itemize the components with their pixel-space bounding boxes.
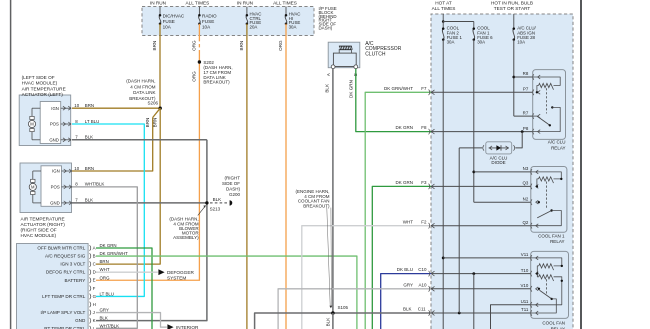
panel boundary connector C (F8)	[431, 129, 434, 134]
fuse DIC/HVAC FUSE 10A	[159, 15, 161, 23]
cool fan relay contact path to T11	[531, 299, 556, 313]
panel boundary connector C (C11)	[431, 311, 434, 316]
cool fan relay box	[531, 251, 569, 318]
svg-text:P7: P7	[523, 87, 529, 92]
wire: feed stub above fuse F2	[198, 7, 200, 16]
A/C compressor clutch box	[328, 42, 360, 67]
fuse COOL FAN 2 FUSE 1 30A	[442, 29, 444, 40]
wire diode left lead	[459, 147, 482, 149]
svg-text:C10: C10	[418, 267, 427, 272]
svg-text:BRN: BRN	[239, 41, 244, 51]
svg-text:WHT: WHT	[403, 219, 413, 224]
wire LT BLU actuator-left POS to pin G (LFT TEMP DR CTRL)	[72, 124, 144, 296]
wire: feed stub above fuse F3	[246, 7, 248, 16]
panel boundary connector C (C10)	[431, 271, 434, 276]
svg-text:S105: S105	[338, 305, 349, 310]
svg-text:S206: S206	[147, 101, 158, 106]
wire BRN S206 diagonal to second drop	[153, 108, 161, 117]
svg-text:(DASH HARN,: (DASH HARN,	[126, 79, 155, 84]
cool fan relay coil 1	[531, 258, 562, 266]
svg-text:10A: 10A	[517, 39, 525, 44]
wire BRN fuse1 down to S206	[159, 24, 161, 108]
air temperature actuator (left) outer box	[19, 95, 70, 146]
wire BLK C11 through S105 to panel	[255, 313, 431, 329]
wire V10 row (from A10)	[431, 288, 531, 290]
wire R7 feed	[514, 115, 533, 117]
svg-text:V10: V10	[520, 283, 528, 288]
svg-text:C: C	[93, 262, 96, 267]
cool fan relay dashed actuator link	[546, 279, 548, 293]
underhood fuse block panel (dashed, light blue)	[431, 14, 573, 329]
svg-text:GRY: GRY	[100, 308, 110, 313]
svg-text:DEFOGGER: DEFOGGER	[167, 270, 194, 275]
svg-text:T10: T10	[521, 268, 529, 273]
svg-text:ACTUATOR (RIGHT): ACTUATOR (RIGHT)	[21, 222, 66, 227]
svg-text:DEFOG RLY CTRL: DEFOG RLY CTRL	[46, 270, 86, 275]
wire GRY pin J to interior lamps	[96, 313, 167, 328]
svg-text:DK BLU: DK BLU	[397, 267, 413, 272]
wire WHT/BLK actuator-right POS to pin L (RT TEMP DR CTRL)	[72, 187, 137, 328]
leader lines to S105	[327, 208, 330, 307]
wire BLK clutch A down to S105	[332, 69, 334, 313]
svg-text:BRN: BRN	[85, 166, 94, 171]
splice S202	[198, 60, 201, 63]
svg-text:IN RUN: IN RUN	[237, 1, 253, 6]
svg-text:DK GRN: DK GRN	[100, 243, 117, 248]
svg-text:F2: F2	[421, 219, 427, 224]
wire R8 feed	[514, 76, 533, 78]
A/C CLU diode box	[486, 142, 512, 154]
wire: left page border line	[10, 0, 12, 329]
svg-text:HOT AT: HOT AT	[435, 0, 452, 5]
wire WHT F2 to panel	[302, 226, 431, 329]
svg-text:GND: GND	[50, 201, 60, 206]
svg-text:10: 10	[74, 103, 79, 108]
svg-text:BLK: BLK	[403, 307, 412, 312]
splice S213	[205, 201, 208, 204]
svg-text:IGN 3 VOLT: IGN 3 VOLT	[60, 262, 85, 267]
svg-text:A/C REQUEST SIG: A/C REQUEST SIG	[45, 254, 86, 259]
svg-text:DASH): DASH)	[319, 26, 333, 31]
svg-text:4 CM FROM: 4 CM FROM	[130, 84, 156, 89]
wire BLK actuator-right GND to S213	[72, 202, 207, 204]
svg-text:RELAY: RELAY	[550, 239, 564, 244]
svg-text:SIDE OF: SIDE OF	[222, 181, 240, 186]
air temperature actuator (right) motor M	[32, 171, 34, 203]
svg-text:M: M	[30, 122, 34, 127]
HVAC control module connector box	[17, 244, 89, 329]
svg-text:BLK: BLK	[213, 197, 222, 202]
svg-text:BATTERY: BATTERY	[65, 278, 86, 283]
svg-text:DK GRN: DK GRN	[348, 80, 353, 98]
wire BRN actuator-left IGN to S206	[72, 107, 160, 109]
svg-text:(RIGHT SIDE OF: (RIGHT SIDE OF	[21, 228, 57, 233]
svg-text:Q2: Q2	[522, 220, 528, 225]
ground G200 symbol	[230, 200, 233, 205]
svg-text:(LEFT SIDE OF: (LEFT SIDE OF	[22, 75, 55, 80]
svg-text:N2: N2	[523, 196, 529, 201]
wire fuse6 output down to N3 and N2	[473, 40, 475, 203]
wire DK GRN clutch B down then right to F8	[356, 69, 431, 132]
wire ORG S202 down to pin E corner	[198, 62, 200, 280]
svg-text:Q3: Q3	[522, 181, 528, 186]
wire T10 row (from C10)	[431, 273, 531, 275]
wire P8 row (from F8) with diode tap	[431, 131, 533, 133]
svg-text:ALL TIMES: ALL TIMES	[432, 6, 456, 11]
wire P7 row (from F7)	[431, 91, 533, 93]
svg-text:ORG: ORG	[100, 275, 111, 280]
svg-text:A: A	[93, 245, 96, 250]
panel boundary connector C (F2)	[431, 223, 434, 228]
svg-text:DK GRN/WHT: DK GRN/WHT	[100, 251, 129, 256]
cool fan relay coil 2	[539, 275, 554, 281]
svg-text:F8: F8	[421, 125, 427, 130]
svg-text:BRN: BRN	[85, 103, 94, 108]
svg-text:BLK: BLK	[85, 135, 93, 140]
svg-text:BRN: BRN	[145, 118, 150, 128]
svg-text:LFT TEMP DR CTRL: LFT TEMP DR CTRL	[42, 294, 86, 299]
svg-text:10A: 10A	[163, 24, 172, 29]
svg-text:10: 10	[74, 166, 79, 171]
wire DK GRN pin A (OFF BLWR MTR CTRL) down off page	[96, 248, 152, 329]
svg-text:F3: F3	[421, 180, 427, 185]
svg-text:IGN: IGN	[51, 106, 59, 111]
wire ORG fuse2 below fuse	[198, 24, 200, 38]
connector pin F	[90, 286, 91, 292]
svg-text:F7: F7	[421, 86, 427, 91]
wire ORG horizontal to pin E (BATTERY)	[96, 279, 200, 281]
svg-text:P8: P8	[523, 126, 529, 131]
leader line to S213	[198, 206, 206, 216]
svg-text:GND: GND	[75, 318, 86, 323]
clutch terminal A	[331, 65, 335, 69]
wire T11 row (from C11)	[431, 312, 531, 314]
svg-text:WHT: WHT	[100, 267, 110, 272]
cool fan 1 relay dashed actuator link	[546, 182, 548, 209]
wire: feed from panel top to fuse 1/fuse 6	[442, 14, 444, 22]
svg-text:ORG: ORG	[191, 40, 196, 51]
svg-text:D: D	[93, 270, 96, 275]
svg-text:A/C CLU: A/C CLU	[548, 140, 566, 145]
defogger system arrow	[158, 269, 164, 275]
cool fan 1 relay switch armature	[537, 211, 551, 218]
svg-text:TEST OR START: TEST OR START	[494, 6, 531, 11]
panel boundary connector C (F3)	[431, 184, 434, 189]
svg-text:S213: S213	[210, 206, 221, 211]
svg-text:I/P LAMP SPLY VOLT: I/P LAMP SPLY VOLT	[41, 310, 86, 315]
wire Q3 row (from F3)	[431, 185, 531, 187]
wire GRY A10 to panel	[278, 289, 431, 329]
svg-text:E: E	[93, 278, 96, 283]
svg-text:POS: POS	[51, 185, 60, 190]
svg-text:10A: 10A	[202, 24, 211, 29]
svg-text:J: J	[93, 310, 95, 315]
svg-text:BRN: BRN	[152, 41, 157, 51]
svg-text:COOL FAN: COOL FAN	[542, 321, 565, 326]
A/C CLU relay box	[533, 70, 566, 140]
svg-text:AIR TEMPERATURE: AIR TEMPERATURE	[21, 216, 65, 221]
wire: right page border line	[580, 0, 582, 329]
interior lamps arrow	[167, 324, 173, 329]
svg-text:CLUTCH: CLUTCH	[365, 51, 386, 57]
svg-text:BRN: BRN	[153, 118, 158, 128]
svg-text:DATA LINK: DATA LINK	[133, 90, 155, 95]
I/P fuse block box (dashed, light blue)	[142, 7, 314, 36]
A/C CLU relay switch armature	[533, 115, 537, 117]
wire BRN down to actuator-right IGN	[72, 118, 153, 172]
wire: feed stub above fuse F1	[159, 7, 161, 16]
svg-text:BRN: BRN	[100, 259, 109, 264]
svg-text:R7: R7	[523, 110, 529, 115]
svg-text:RELAY: RELAY	[551, 145, 565, 150]
svg-text:BLK: BLK	[325, 83, 330, 93]
svg-text:IGN: IGN	[52, 169, 60, 174]
svg-text:H: H	[93, 302, 96, 307]
svg-text:B: B	[93, 253, 96, 258]
svg-text:DK GRN/WHT: DK GRN/WHT	[384, 86, 413, 91]
svg-text:BREAKOUT): BREAKOUT)	[303, 203, 330, 208]
svg-text:N3: N3	[523, 166, 529, 171]
svg-text:K: K	[93, 318, 96, 323]
wire diode ground drop	[458, 148, 460, 313]
svg-text:DK GRN: DK GRN	[395, 125, 413, 130]
wire DK GRN/WHT pin B (A/C REQUEST SIG) down off page	[96, 256, 357, 329]
air temperature actuator (right) outer box	[20, 163, 72, 213]
svg-text:DIC/HVAC: DIC/HVAC	[163, 13, 185, 18]
svg-text:HVAC MODULE): HVAC MODULE)	[22, 81, 58, 86]
svg-text:20A: 20A	[250, 25, 258, 30]
svg-text:GRY: GRY	[403, 282, 413, 287]
svg-text:BLK: BLK	[85, 198, 93, 203]
wire ORG fuse2 down to S202	[198, 53, 200, 63]
svg-text:GND: GND	[49, 137, 59, 142]
wire: feed stub above A/C CLU fuse	[513, 14, 515, 29]
wire Q2 row (from F2)	[431, 225, 531, 227]
wire DK GRN F3 to panel	[372, 186, 431, 329]
svg-text:HOT IN RUN, BULB: HOT IN RUN, BULB	[491, 0, 533, 5]
wire BRN fuse3 down off page bottom	[246, 24, 248, 329]
svg-text:V11: V11	[521, 252, 529, 257]
svg-text:R8: R8	[523, 71, 529, 76]
svg-text:ASSEMBLY): ASSEMBLY)	[173, 235, 199, 240]
wire ORG fuse4 down off page bottom	[285, 24, 287, 329]
svg-text:BREAKOUT): BREAKOUT)	[203, 80, 230, 85]
fuse COOL FAN 1 FUSE 6 30A	[473, 29, 475, 40]
A/C CLU relay dashed actuator link	[546, 88, 548, 113]
wire BLK down through S213 to pin K (GND)	[96, 140, 207, 321]
clutch coil winding	[339, 45, 352, 47]
svg-text:FUSE: FUSE	[163, 19, 175, 24]
fuse HVAC HI FUSE 30A	[285, 15, 287, 23]
svg-text:POS: POS	[50, 122, 59, 127]
svg-text:U11: U11	[521, 299, 529, 304]
fuse A/C CLU/ABS IGN FUSE 28 10A	[513, 29, 515, 40]
svg-text:OFF BLWR MTR CTRL: OFF BLWR MTR CTRL	[37, 246, 85, 251]
wire dashed BLK S213 to ground G200	[210, 202, 227, 204]
svg-text:F: F	[93, 286, 96, 291]
splice S206	[159, 107, 162, 110]
svg-text:ALL TIMES: ALL TIMES	[186, 1, 210, 6]
cool fan 1 relay contact path to Q2	[531, 211, 561, 226]
wire fan feed down from T10 row	[473, 274, 475, 329]
svg-text:ALL TIMES: ALL TIMES	[273, 1, 297, 6]
svg-text:30A: 30A	[289, 25, 297, 30]
wire BLK below S105 off page	[332, 313, 334, 329]
wire BLK actuator-left GND to corner	[72, 139, 207, 141]
svg-text:FUSE: FUSE	[202, 19, 214, 24]
fuse RADIO FUSE 10A	[199, 15, 201, 23]
wire: feed stub above fuse F4	[285, 7, 287, 16]
panel boundary connector C (A10)	[431, 286, 434, 291]
wire ORG fuse2 dashed segment	[198, 38, 200, 53]
panel boundary connector C (F7)	[431, 90, 434, 95]
svg-text:A: A	[326, 73, 331, 76]
air temperature actuator (left) motor M	[31, 108, 33, 140]
wire fuse1 output down to V11 junction and off page	[442, 40, 444, 329]
svg-text:WHT/BLK: WHT/BLK	[85, 182, 105, 187]
svg-text:T11: T11	[521, 307, 529, 312]
wire U11 row from corner, down off page	[491, 305, 532, 329]
svg-text:ACTUATOR (LEFT): ACTUATOR (LEFT)	[22, 92, 64, 97]
wire DK GRN/WHT F7 to panel	[365, 92, 431, 329]
wire N2 feed	[474, 201, 531, 203]
wire V11 feed to cool fan relay	[443, 257, 531, 259]
svg-text:IN RUN: IN RUN	[150, 1, 166, 6]
splice S105	[331, 311, 335, 315]
air temperature actuator (left) inner connector box	[40, 102, 61, 144]
svg-text:SYSTEM: SYSTEM	[167, 275, 186, 280]
wire N3 feed	[474, 171, 531, 173]
diode element	[489, 147, 509, 149]
svg-text:DK GRN: DK GRN	[395, 180, 413, 185]
svg-text:BLK: BLK	[325, 317, 330, 327]
svg-text:ORG: ORG	[191, 71, 196, 82]
cool fan relay switch armature	[540, 290, 552, 299]
wire diode right lead up to P8	[515, 132, 522, 148]
svg-text:HVAC MODULE): HVAC MODULE)	[21, 233, 57, 238]
clutch inner outline	[333, 53, 356, 66]
svg-text:DASH): DASH)	[226, 186, 241, 191]
svg-text:LT BLU: LT BLU	[85, 119, 99, 124]
svg-text:DIODE: DIODE	[491, 160, 505, 165]
svg-text:RADIO: RADIO	[202, 13, 217, 18]
svg-text:ORG: ORG	[278, 40, 283, 51]
svg-text:G200: G200	[229, 192, 241, 197]
svg-text:(RIGHT: (RIGHT	[225, 175, 241, 180]
cool fan 1 relay box	[531, 167, 567, 233]
wire BRN S206 down to pin C (IGN 3 VOLT)	[96, 108, 160, 264]
cool fan 1 relay fixed contact	[538, 201, 540, 203]
clutch terminal B	[354, 65, 358, 69]
air temperature actuator (right) inner connector box	[41, 166, 62, 207]
svg-text:30A: 30A	[447, 39, 455, 44]
svg-text:LT BLU: LT BLU	[100, 291, 114, 296]
wire A/C fuse output down to R8 and R7	[513, 40, 515, 117]
wire DK BLU C10 to panel	[381, 274, 431, 329]
A/C CLU relay fixed contact to P8	[551, 106, 553, 108]
wire WHT pin D to defogger system	[96, 271, 158, 273]
cool fan relay fixed contact	[538, 288, 540, 290]
svg-text:INTERIOR: INTERIOR	[176, 325, 199, 329]
cool fan 1 relay coil	[531, 172, 561, 179]
svg-text:C11: C11	[418, 307, 426, 312]
svg-text:M: M	[31, 185, 35, 190]
fuse HVAC CTRL FUSE 20A	[246, 15, 248, 23]
svg-text:A10: A10	[418, 282, 427, 287]
svg-text:COOL FAN 1: COOL FAN 1	[538, 233, 565, 238]
A/C CLU relay coil	[533, 77, 560, 86]
connector pin H	[90, 302, 91, 308]
svg-text:AIR TEMPERATURE: AIR TEMPERATURE	[22, 86, 66, 91]
svg-text:30A: 30A	[477, 39, 485, 44]
